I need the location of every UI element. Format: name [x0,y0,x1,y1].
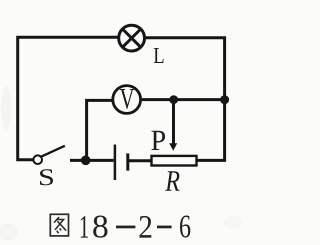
wire [142,98,225,101]
wire [87,100,112,160]
label P [151,131,165,150]
caption digit 1 [81,216,88,238]
voltmeter V [113,86,141,114]
label R [165,171,179,191]
node junction [169,95,178,104]
node junction [81,156,91,166]
wire [18,37,119,160]
caption dash [157,226,172,229]
caption digit 2 [139,216,151,238]
label S [40,169,53,185]
caption 图 18-2-6 [50,214,190,237]
caption digit 6 [180,216,190,238]
slider P arrow [169,143,177,151]
switch S [33,146,64,164]
node junction [220,95,229,104]
caption digit 8 [93,216,107,238]
rheostat R [152,156,197,166]
wire [145,38,225,161]
wire [70,159,114,162]
label L [154,48,164,63]
wire [172,100,175,144]
caption dash [116,226,135,229]
caption glyph 图 [50,214,68,236]
lamp L [119,25,145,51]
wire [129,159,151,162]
battery cell [115,145,128,181]
